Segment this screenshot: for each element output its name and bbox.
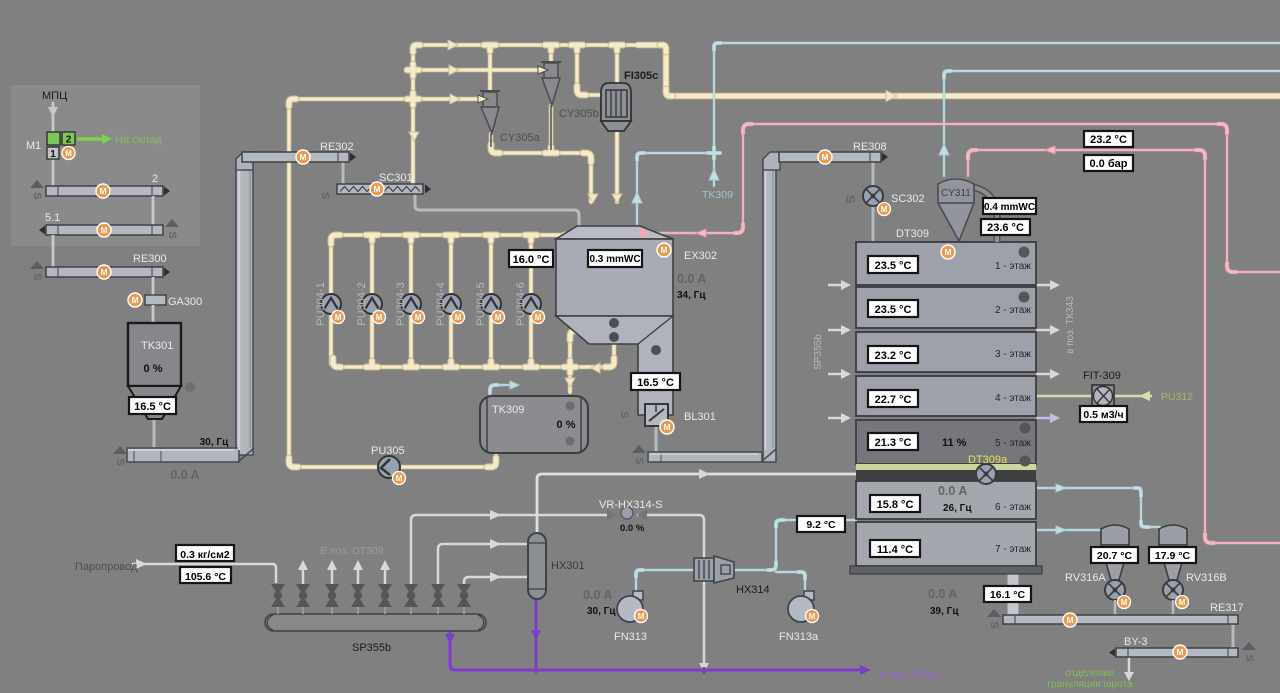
svg-text:RE317: RE317 bbox=[1210, 602, 1244, 614]
gate GA300 bbox=[128, 293, 142, 307]
value box 16.0 °C bbox=[509, 250, 553, 267]
valve SC302 bbox=[843, 186, 925, 216]
dryer floor 5 bbox=[856, 420, 1036, 464]
svg-text:FI305c: FI305c bbox=[624, 70, 658, 82]
svg-text:RE302: RE302 bbox=[320, 141, 354, 153]
svg-text:VR-HX314-S: VR-HX314-S bbox=[599, 499, 663, 511]
wire 5.1 to RE300 bbox=[52, 235, 55, 267]
value box 16.1 °C bbox=[984, 586, 1031, 602]
svg-text:0.0 бар: 0.0 бар bbox=[1090, 158, 1128, 170]
svg-text:30, Гц: 30, Гц bbox=[200, 437, 229, 448]
svg-text:0.0 %: 0.0 % bbox=[620, 523, 645, 534]
svg-text:5.1: 5.1 bbox=[45, 212, 60, 224]
svg-text:SC301: SC301 bbox=[379, 172, 413, 184]
control panel background bbox=[11, 85, 200, 246]
svg-text:0 %: 0 % bbox=[144, 363, 163, 375]
svg-text:FN313a: FN313a bbox=[779, 631, 819, 643]
svg-text:17.9 °C: 17.9 °C bbox=[1155, 550, 1191, 562]
svg-text:S: S bbox=[319, 192, 331, 199]
value box 0.5 м3/ч bbox=[1080, 406, 1127, 422]
duct TK301 to RE302 bbox=[127, 159, 254, 462]
sensor S conveyor 2 bbox=[30, 180, 44, 200]
svg-text:21.3 °C: 21.3 °C bbox=[875, 437, 912, 449]
cyclone CY311 bbox=[938, 179, 997, 242]
wire from МПЦ down bbox=[52, 102, 55, 133]
svg-text:PU312: PU312 bbox=[1161, 391, 1193, 403]
value box 0.3 mmWC bbox=[588, 250, 642, 267]
svg-text:SP355b: SP355b bbox=[813, 334, 824, 370]
wire cream recirculation network bbox=[289, 45, 1280, 467]
joint fittings on blue pipes bbox=[490, 43, 1149, 579]
tank TK309 drum bbox=[480, 396, 588, 453]
svg-text:SP355b: SP355b bbox=[352, 642, 391, 654]
wire gray product drop lines bbox=[154, 162, 1233, 650]
conveyor RE302 bbox=[236, 141, 356, 170]
value box 11.4 °C bbox=[870, 540, 920, 557]
conveyor RE317 bbox=[987, 602, 1244, 629]
svg-text:0.0 A: 0.0 A bbox=[170, 468, 199, 482]
svg-text:23.5 °C: 23.5 °C bbox=[875, 304, 912, 316]
dryer floor 7 bbox=[856, 522, 1036, 566]
dark band bbox=[856, 470, 1036, 481]
svg-text:HX314: HX314 bbox=[736, 584, 770, 596]
svg-text:30, Гц: 30, Гц bbox=[587, 606, 616, 617]
wire RE300 to GA300 bbox=[152, 277, 155, 296]
svg-text:7 - этаж: 7 - этаж bbox=[995, 544, 1031, 555]
svg-text:RV316B: RV316B bbox=[1186, 572, 1227, 584]
svg-text:16.5 °C: 16.5 °C bbox=[134, 401, 171, 413]
svg-text:TK309: TK309 bbox=[702, 189, 733, 201]
svg-text:15.8 °C: 15.8 °C bbox=[877, 499, 914, 511]
value box 16.5 °C bbox=[631, 373, 680, 390]
dryer base bbox=[850, 566, 1042, 574]
svg-text:0 %: 0 % bbox=[557, 419, 576, 431]
svg-text:в поз. ТК343: в поз. ТК343 bbox=[880, 669, 941, 681]
svg-text:PU304-3: PU304-3 bbox=[395, 282, 407, 325]
rotary valve BL301 bbox=[618, 404, 716, 434]
wire DT309 outlet chute bbox=[1008, 574, 1019, 615]
fan FN313a bbox=[779, 591, 819, 643]
svg-text:1: 1 bbox=[50, 149, 56, 160]
svg-text:S: S bbox=[843, 195, 858, 204]
value box 21.3 °C bbox=[868, 433, 918, 450]
svg-text:CY305b: CY305b bbox=[559, 108, 599, 120]
svg-text:0.0 A: 0.0 A bbox=[928, 587, 957, 601]
svg-text:M1: M1 bbox=[26, 140, 41, 152]
wire RV316 outlets bbox=[1115, 600, 1173, 615]
svg-text:RV316A: RV316A bbox=[1065, 572, 1106, 584]
svg-text:9.2 °C: 9.2 °C bbox=[806, 519, 836, 531]
wire lavender arrow bbox=[1050, 413, 1060, 423]
svg-text:PU304-1: PU304-1 bbox=[315, 282, 327, 325]
wire steam light gray lines bbox=[132, 285, 1129, 673]
svg-text:На склад: На склад bbox=[115, 134, 162, 146]
value box 23.6 °C bbox=[981, 219, 1030, 235]
dryer floor 4 bbox=[856, 376, 1036, 416]
node pink dot at EX302 bbox=[639, 229, 648, 238]
cyclone CY305a bbox=[480, 91, 500, 147]
svg-text:16.0 °C: 16.0 °C bbox=[513, 254, 550, 266]
svg-text:TK309: TK309 bbox=[492, 404, 524, 416]
svg-text:HX301: HX301 bbox=[551, 560, 585, 572]
svg-text:GA300: GA300 bbox=[168, 296, 202, 308]
svg-text:39, Гц: 39, Гц bbox=[930, 606, 959, 617]
svg-text:22.7 °C: 22.7 °C bbox=[875, 394, 912, 406]
flow meter FIT-309 bbox=[1083, 370, 1193, 407]
wire conveyor2 to 5.1 bbox=[152, 196, 155, 225]
heat exchanger HX314 bbox=[694, 556, 770, 596]
sensor S RE300 bbox=[30, 261, 44, 281]
svg-text:МПЦ: МПЦ bbox=[42, 90, 67, 102]
dryer DT309 bbox=[850, 228, 1042, 617]
rotary valve RV316A bbox=[1065, 525, 1131, 609]
svg-text:CY311: CY311 bbox=[941, 188, 971, 199]
svg-text:PU304-4: PU304-4 bbox=[435, 282, 447, 325]
level band DT309a bbox=[856, 464, 1036, 470]
svg-text:23.2 °C: 23.2 °C bbox=[875, 350, 912, 362]
svg-text:TK301: TK301 bbox=[141, 340, 173, 352]
wire lavender line to TK343 bbox=[1036, 417, 1051, 420]
steam header SP355b bbox=[265, 614, 486, 654]
svg-text:SC302: SC302 bbox=[891, 193, 925, 205]
svg-text:2: 2 bbox=[152, 173, 158, 185]
wire FIT-309 yellow-green line bbox=[1036, 395, 1152, 398]
svg-text:В поз. DT309: В поз. DT309 bbox=[320, 545, 384, 557]
svg-text:в поз. ТК343: в поз. ТК343 bbox=[1065, 296, 1076, 354]
svg-text:3 - этаж: 3 - этаж bbox=[995, 349, 1031, 360]
valves on SP355b manifold bbox=[271, 584, 471, 607]
svg-text:2: 2 bbox=[66, 135, 72, 146]
svg-text:RE300: RE300 bbox=[133, 253, 167, 265]
svg-text:CY305a: CY305a bbox=[500, 132, 541, 144]
value box 0.3 кг/см2 bbox=[176, 545, 234, 561]
svg-text:EX302: EX302 bbox=[684, 250, 717, 262]
left panel group bbox=[26, 90, 229, 482]
svg-text:0.3 кг/см2: 0.3 кг/см2 bbox=[180, 549, 230, 561]
svg-text:26, Гц: 26, Гц bbox=[943, 503, 972, 514]
svg-text:4 - этаж: 4 - этаж bbox=[995, 393, 1031, 404]
svg-text:0.5 м3/ч: 0.5 м3/ч bbox=[1083, 409, 1123, 421]
svg-text:FIT-309: FIT-309 bbox=[1083, 370, 1121, 382]
value box 20.7 °C bbox=[1091, 547, 1138, 563]
wire pink flow arrows bbox=[696, 146, 1055, 237]
svg-text:Паропровод: Паропровод bbox=[75, 561, 138, 573]
value box 17.9 °C bbox=[1149, 547, 1196, 563]
svg-text:BL301: BL301 bbox=[684, 411, 716, 423]
dryer floor 2 bbox=[856, 287, 1036, 328]
conveyor screw SC301 bbox=[319, 172, 431, 199]
svg-text:BY-3: BY-3 bbox=[1124, 636, 1147, 648]
tank TK301 bbox=[128, 323, 181, 386]
conveyor BY-3 bbox=[1109, 636, 1256, 662]
pump PU305 bbox=[371, 445, 406, 485]
value box 9.2 °C bbox=[797, 516, 845, 532]
svg-text:FN313: FN313 bbox=[614, 631, 647, 643]
fan FN313 bbox=[583, 588, 648, 643]
valve DT309a bbox=[976, 464, 996, 484]
value box 105.6 °C bbox=[180, 567, 231, 583]
svg-text:PU304-5: PU304-5 bbox=[475, 282, 487, 325]
svg-text:23.2 °C: 23.2 °C bbox=[1090, 134, 1127, 146]
svg-text:16.5 °C: 16.5 °C bbox=[637, 377, 674, 389]
svg-text:23.6 °C: 23.6 °C bbox=[987, 222, 1024, 234]
conveyor RE308 bbox=[763, 141, 888, 170]
motor M1 bbox=[62, 146, 75, 159]
expander EX302 bbox=[556, 226, 717, 415]
wire cream flow arrows bbox=[409, 40, 897, 387]
svg-text:S: S bbox=[618, 411, 630, 418]
svg-text:16.1 °C: 16.1 °C bbox=[990, 589, 1026, 601]
svg-text:0.0 A: 0.0 A bbox=[938, 484, 967, 498]
value box 23.5 °C bbox=[868, 256, 918, 273]
value box 0.4 mmWC bbox=[983, 198, 1036, 214]
wire pink hot air lines bbox=[643, 124, 1280, 543]
joint fittings on pink pipes bbox=[735, 124, 1236, 543]
svg-text:11 %: 11 % bbox=[942, 437, 967, 449]
value box 0.0 бар bbox=[1084, 155, 1133, 171]
dryer floor 6 bbox=[856, 481, 1036, 519]
value box 16.5 °C bbox=[129, 397, 176, 414]
wire GA300 to TK301 bbox=[152, 305, 155, 323]
value box 23.5 °C bbox=[868, 300, 918, 317]
sensor S conveyor 5.1 bbox=[165, 219, 179, 239]
svg-text:отделение: отделение bbox=[1066, 668, 1115, 679]
wire steam arrows bbox=[136, 280, 1134, 681]
svg-text:34, Гц: 34, Гц bbox=[677, 290, 706, 301]
svg-text:1 - этаж: 1 - этаж bbox=[995, 261, 1031, 272]
dryer floor 3 bbox=[856, 332, 1036, 372]
wire blue flow arrows bbox=[510, 144, 1066, 534]
svg-text:PU304-2: PU304-2 bbox=[356, 282, 368, 325]
heat exchanger HX301 bbox=[528, 533, 585, 599]
rotary valve RV316B bbox=[1159, 525, 1227, 609]
svg-text:0.0 A: 0.0 A bbox=[583, 588, 612, 602]
svg-text:6 - этаж: 6 - этаж bbox=[995, 502, 1031, 513]
svg-text:20.7 °C: 20.7 °C bbox=[1097, 550, 1133, 562]
svg-text:23.5 °C: 23.5 °C bbox=[875, 260, 912, 272]
svg-text:0.4 mmWC: 0.4 mmWC bbox=[984, 202, 1035, 213]
svg-text:грануляции шрота: грануляции шрота bbox=[1048, 679, 1133, 690]
wire M1 to conveyor 2 bbox=[52, 158, 55, 186]
svg-text:11.4 °C: 11.4 °C bbox=[877, 544, 913, 556]
svg-text:0.3 mmWC: 0.3 mmWC bbox=[589, 254, 640, 265]
sensor S at RE308 duct bbox=[632, 445, 646, 465]
value box 23.2 °C bbox=[868, 346, 918, 363]
pumps PU304-1..6 bbox=[315, 282, 545, 325]
svg-text:5 - этаж: 5 - этаж bbox=[995, 438, 1031, 449]
value box 15.8 °C bbox=[870, 495, 920, 512]
wire purple condensate line bbox=[450, 599, 861, 674]
svg-text:0.0 A: 0.0 A bbox=[677, 272, 706, 286]
svg-text:DT309: DT309 bbox=[896, 228, 929, 240]
value box 23.2 °C bbox=[1084, 131, 1133, 147]
dryer floor 1 bbox=[856, 242, 1036, 285]
svg-text:RE308: RE308 bbox=[853, 141, 887, 153]
cyclone CY305b bbox=[541, 62, 561, 150]
valve VR-HX314-S bbox=[599, 499, 663, 534]
svg-text:PU304-6: PU304-6 bbox=[515, 282, 527, 325]
joint fittings on cream pipes bbox=[289, 45, 673, 467]
value box 22.7 °C bbox=[868, 390, 918, 407]
wire green to warehouse arrow bbox=[77, 137, 102, 141]
blower FI305c bbox=[601, 70, 658, 131]
sensor level TK301 duct bbox=[113, 446, 127, 466]
svg-text:2 - этаж: 2 - этаж bbox=[995, 305, 1031, 316]
svg-text:105.6 °C: 105.6 °C bbox=[185, 571, 226, 583]
duct BL301 to RE308 bbox=[648, 159, 776, 462]
svg-text:PU305: PU305 bbox=[371, 445, 405, 457]
wire blue air lines bbox=[490, 43, 1280, 593]
